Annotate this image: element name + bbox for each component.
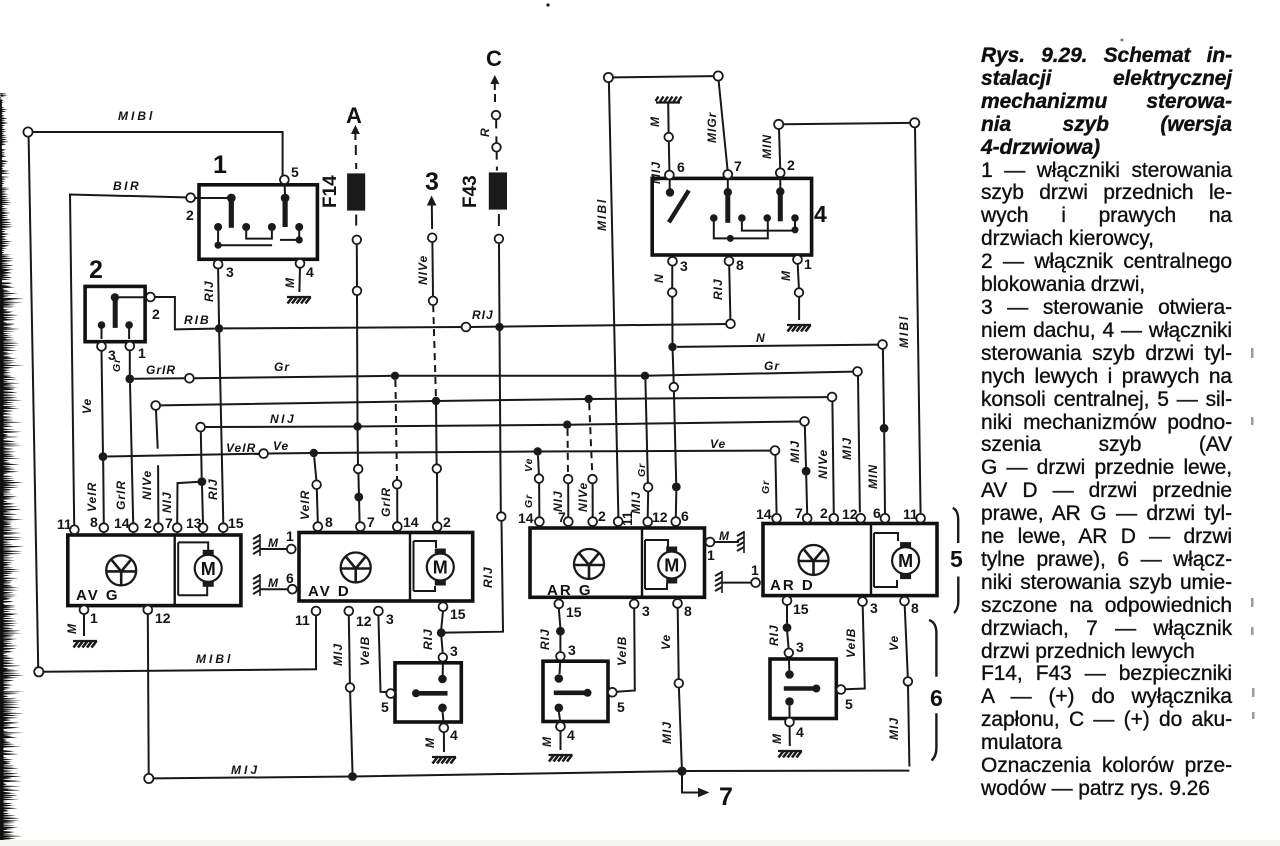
svg-text:6: 6 [681,508,689,524]
svg-text:M: M [423,737,437,748]
fuse F43 [460,172,507,226]
svg-text:Ve: Ve [523,458,535,472]
switch 6b (rear left door window switch) [540,661,625,761]
svg-text:M: M [65,623,79,634]
svg-text:8: 8 [684,603,692,619]
svg-text:1: 1 [90,610,98,626]
svg-text:MIBl: MIBl [897,315,911,348]
bracket 6 (door switches group) [929,620,943,761]
svg-text:1: 1 [138,345,146,361]
svg-text:7: 7 [719,783,733,811]
wire VeIR drop to AVG pin8 [85,461,104,524]
wire Gr drop to ARG pin12 [629,372,652,518]
svg-text:8: 8 [911,600,919,616]
ground (switch 6a pin 4, M) [432,757,456,764]
wire MIBI bottom bus: left connector to AVD pin 11 [34,615,316,676]
small page specks [546,3,549,6]
bracket 5 (motor units group) [950,508,963,613]
wire BIR from switch 1 pin 2 down-left to AVG pin 11 [70,179,190,525]
wire NIVe drop to ARG pin2 [576,395,597,518]
svg-text:3: 3 [450,643,458,659]
svg-text:F43: F43 [460,175,481,208]
ground (switch 4 pin 1, M) [787,325,811,332]
svg-text:MIN: MIN [866,464,880,489]
wire VeIB: ARD pin3 to switch 6c pin5 [844,606,865,689]
svg-text:VeIB: VeIB [615,636,629,666]
node MIBI top-left connector [23,109,282,176]
wire Ve/MIJ: ARG pin8 down to MIJ junction [659,608,683,767]
svg-text:Gr: Gr [111,358,123,372]
wire VeIB: AVD pin3 to switch 6a pin5 [358,615,386,692]
svg-text:3: 3 [568,642,576,658]
svg-text:RIJ: RIJ [472,308,494,322]
wire NIJ drop to ARG pin7 [551,421,572,519]
svg-text:12: 12 [356,613,372,629]
wire MIGr from connector down to switch4 pin7 [705,71,728,170]
svg-text:Gr: Gr [760,480,772,494]
svg-text:2: 2 [89,256,103,284]
wire NIJ drop to AVG pins 7 and 13 [160,431,206,523]
svg-text:Ve: Ve [659,634,673,650]
svg-text:F14: F14 [320,175,341,208]
svg-text:1: 1 [804,256,812,272]
wire Ve drop to ARD pin14 [760,455,777,515]
svg-text:4: 4 [567,727,575,743]
wire RIJ: ARG pin15 down to switch 6b pin3 [538,608,576,674]
wire Ve drop to ARG pin14 [523,447,543,518]
svg-text:AR G: AR G [547,582,593,599]
svg-text:5: 5 [381,699,389,715]
wire NIVe drop to ARD pin2 [816,401,834,514]
svg-text:1: 1 [707,547,715,563]
svg-text:VeIB: VeIB [358,636,372,666]
svg-text:M: M [283,277,297,288]
wire left tall MIBI vertical down to MIBI bottom bus [29,137,39,668]
svg-text:8: 8 [90,514,98,530]
svg-text:Ve: Ve [887,635,901,651]
svg-text:13: 13 [186,515,202,531]
svg-text:1: 1 [751,562,759,578]
svg-text:MIJ: MIJ [231,763,260,777]
svg-text:12: 12 [652,509,668,525]
wire Gr drop to ARD pin12 [840,376,860,513]
svg-text:14: 14 [403,514,419,530]
svg-text:Gr: Gr [636,463,648,477]
ground (switch 1 pin 4, M) [287,297,311,304]
svg-text:6: 6 [930,685,943,711]
svg-text:Ve: Ve [80,398,94,414]
motor M (AV D) [427,549,454,586]
svg-text:C: C [486,46,502,71]
ground above switch4 pin6 [648,97,682,185]
svg-text:M: M [770,733,784,744]
svg-text:MIJ: MIJ [788,440,802,463]
svg-text:A: A [346,103,362,128]
svg-text:2: 2 [186,207,194,223]
svg-text:MIJ: MIJ [629,491,643,514]
svg-text:5: 5 [291,164,299,180]
wire RIJ: AVD pin15 down, junction to F43 drop, to switch 6a pin3 [421,611,458,675]
motor unit AR D (rear right window motor) [756,505,937,617]
svg-text:15: 15 [228,515,244,531]
svg-text:7: 7 [558,509,566,525]
motor M (AV G) [195,550,222,587]
wire RIJ bus RIB junction to switch4 pin8 [223,308,735,331]
svg-text:3: 3 [386,611,394,627]
switch 2 (central door locking switch) [85,256,160,363]
svg-text:11: 11 [903,506,918,522]
svg-text:4: 4 [306,264,314,280]
svg-text:NIVe: NIVe [140,470,154,500]
svg-text:NIVe: NIVe [416,255,430,285]
wire MIBI vertical down to ARG pin 11 [609,82,619,518]
wire VeIR drop to AVD pin8 [298,449,321,523]
wire Ve bus [99,437,780,461]
svg-text:11: 11 [295,612,310,628]
svg-text:8: 8 [325,514,333,530]
svg-text:Ve: Ve [273,439,289,453]
svg-text:1: 1 [286,528,294,544]
svg-text:M: M [540,736,554,747]
wire MIJ: AVD pin12 down to MIJ bus [331,615,354,772]
motor unit AV D (front right window motor) [295,514,473,629]
svg-text:M: M [268,576,279,590]
svg-text:NIJ: NIJ [270,412,296,426]
svg-text:GrIR: GrIR [114,480,128,510]
svg-text:3: 3 [870,600,878,616]
wire NIVe drop to AVG pin2 [140,410,158,524]
node 3 sunroof control arrow [425,168,439,229]
svg-text:6: 6 [873,505,881,521]
svg-text:VeIR: VeIR [298,490,312,520]
svg-text:NIVe: NIVe [576,482,590,512]
svg-text:MIJ: MIJ [840,437,854,460]
switch 6a (front right door window switch) [381,663,461,764]
svg-text:12: 12 [155,610,171,626]
svg-text:N: N [756,331,766,345]
motor unit AV G (front left window motor) [57,514,244,648]
svg-text:6: 6 [677,159,685,175]
svg-text:NIVe: NIVe [816,449,830,479]
svg-text:7: 7 [734,158,742,174]
svg-text:NIJ: NIJ [160,491,174,513]
svg-text:3: 3 [680,258,688,274]
chassis ground to ARD left pin 1 [715,562,760,593]
svg-text:RIJ: RIJ [538,628,552,650]
svg-text:RIJ: RIJ [767,624,781,646]
svg-text:2: 2 [820,505,828,521]
svg-text:15: 15 [793,601,809,617]
node A (+) ignition feed arrow [346,103,362,169]
svg-text:MIBl: MIBl [196,652,233,666]
svg-text:5: 5 [617,699,625,715]
svg-text:M: M [648,116,662,127]
svg-text:AR D: AR D [770,577,815,594]
wire Ve/MIJ: ARD pin8 down to MIJ bus right end [686,605,912,771]
wire N bus [668,331,888,515]
ARG right pin 1 to chassis ground [706,529,744,563]
svg-text:2: 2 [152,306,160,322]
svg-text:Ve: Ve [710,437,726,451]
svg-text:RIJ: RIJ [202,280,216,302]
svg-text:11: 11 [57,516,72,532]
motor M (AR G) [658,547,685,584]
wire MIJ bottom bus: AVG pin12 down, connector, to junctions [144,614,686,783]
node MIN connector pair [760,118,919,168]
svg-text:5: 5 [950,546,963,572]
svg-text:M: M [268,536,279,550]
node C (+) battery feed arrow [486,46,502,102]
wire F14 down to NIJ bus and AVD pin 7 [353,236,364,523]
svg-text:14: 14 [518,510,534,526]
ground (AV G pin 1, M) [73,641,97,648]
motor unit AR G (rear left window motor) [518,508,705,620]
wire RIJ from switch1 pin3 through RIB junction down to AVG pin 15 [202,269,223,524]
wire MIN/MIBI vertical down to ARD pin 11 [897,127,921,515]
svg-text:GrIR: GrIR [379,487,393,517]
switch 6c (rear right door window switch) [770,659,853,758]
svg-text:BIR: BIR [113,179,141,193]
ground chassis + M1 wire into AVD left pin 1 [253,528,296,556]
svg-text:1: 1 [213,151,227,179]
fan symbol AR D [799,545,829,575]
wire Gr bus: GrIR junction, connector, across to ARD pin12 drop [114,359,862,523]
svg-text:MIN: MIN [760,134,774,159]
svg-text:3: 3 [425,168,439,196]
svg-text:N: N [652,273,666,283]
svg-text:11: 11 [619,511,635,526]
node 7 output arrow from MIJ junction [682,776,733,812]
svg-text:MIGr: MIGr [705,111,719,143]
svg-text:VeIR: VeIR [85,482,99,512]
svg-text:RIJ: RIJ [481,566,495,588]
svg-text:M: M [719,529,730,543]
svg-text:Gr: Gr [523,494,535,508]
wire VeIB: ARG pin3 to switch 6b pin5 [615,608,635,692]
svg-text:GrIR: GrIR [146,363,176,377]
svg-text:2: 2 [598,508,606,524]
svg-text:RIB: RIB [184,313,211,327]
svg-text:4: 4 [814,201,827,227]
wire F43 down RIJ to RIB junction then down right side of AVD to switch 6a [445,235,506,633]
svg-text:2: 2 [787,157,795,173]
svg-text:R: R [478,127,492,137]
wire C to F43 with connectors, label R [478,111,501,171]
svg-text:RIJ: RIJ [421,628,435,650]
svg-text:7: 7 [165,515,173,531]
svg-text:MIBl: MIBl [118,109,155,123]
wire GrIR drop to AVD pin14 [379,372,401,523]
svg-text:MIJ: MIJ [331,643,345,666]
svg-text:AV G: AV G [76,587,120,604]
svg-text:Gr: Gr [764,359,780,373]
svg-text:12: 12 [842,506,858,522]
wire RIJ: ARD pin15 down to switch 6c pin3 [767,605,804,671]
switch4 pin8 (RIJ) down to RIJ bus connector [711,257,744,320]
svg-text:6: 6 [286,570,294,586]
svg-text:15: 15 [450,606,466,622]
switch4 pin1 (M) to ground [779,255,812,331]
svg-text:MIJ: MIJ [887,717,901,740]
ground (switch 6b pin 4, M) [549,755,573,762]
ground (switch 6c pin 4, M) [778,751,802,758]
svg-text:3: 3 [226,264,234,280]
svg-text:MIBl: MIBl [595,198,609,231]
svg-text:3: 3 [796,639,804,655]
svg-text:Gr: Gr [274,360,290,374]
wire Gr from switch2 pin1 down to GrIR junction [111,350,130,379]
motor M (AR D) [892,542,919,579]
svg-text:M: M [779,270,793,281]
svg-text:MIJ: MIJ [660,721,674,744]
fuse F14 [320,173,365,225]
svg-text:7: 7 [367,514,375,530]
svg-text:5: 5 [845,696,853,712]
switch 1 (front window switches on driver door) [186,151,317,304]
svg-text:15: 15 [566,604,582,620]
fan symbol AV G [106,555,136,585]
svg-text:RIJ: RIJ [206,478,220,500]
ground chassis + M6 wire into AVD left pin 6 [253,570,297,596]
node MIBI top connector pair [595,73,714,231]
switch4 pin3 (N) lower connector chain [652,257,688,518]
svg-text:14: 14 [114,515,130,531]
svg-text:2: 2 [443,514,451,530]
fan symbol AR G [574,549,604,579]
svg-text:2: 2 [144,515,152,531]
wire 3 / NIVe feed down to NIVe bus [416,233,441,522]
fan symbol AV D [341,553,371,583]
svg-text:4: 4 [796,724,804,740]
svg-text:14: 14 [756,506,772,522]
svg-text:4: 4 [450,727,458,743]
wire Ve from switch2 pin3 down to Ve bus junction [80,351,103,457]
wire RIB from switch2 pin2 to RIJ junction [155,297,215,329]
wire NIVe bus [151,393,836,410]
svg-text:7: 7 [795,505,803,521]
svg-text:RIJ: RIJ [711,278,725,300]
svg-text:AV D: AV D [308,583,351,600]
svg-text:8: 8 [736,257,744,273]
switch 4 (rear window switches on centre console) [652,157,827,255]
wire NIJ drop to ARD pin7 [788,426,810,515]
wire NIJ bus [196,412,809,432]
svg-text:3: 3 [642,603,650,619]
svg-text:VeIB: VeIB [844,628,858,658]
ground (above switch 4 pin 6, M) [656,101,680,103]
